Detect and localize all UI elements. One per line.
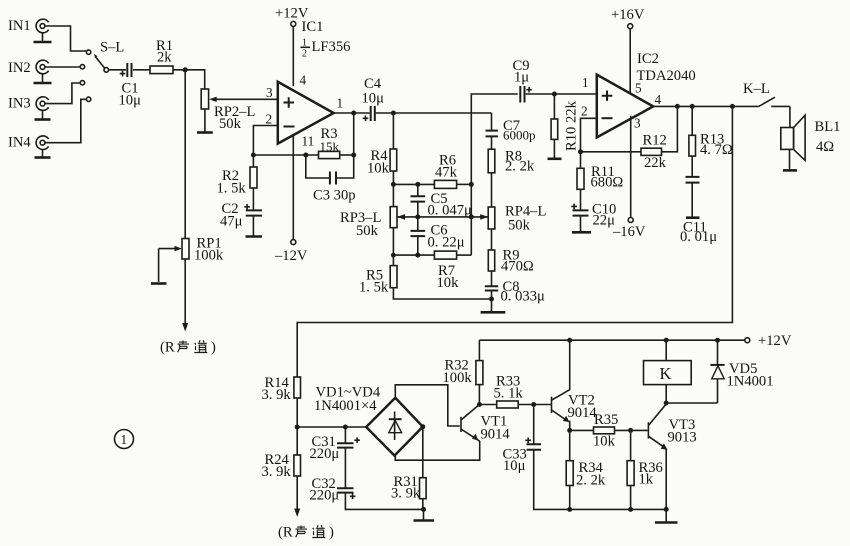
ground speaker bbox=[783, 169, 797, 172]
svg-text:1μ: 1μ bbox=[514, 70, 529, 86]
node R10 top bbox=[552, 92, 557, 97]
node wiper col B bbox=[415, 214, 420, 219]
resistor R6 47k bbox=[434, 153, 457, 189]
wire VT3 emitter to ground row bbox=[665, 449, 667, 510]
wire R4 to node X bbox=[392, 171, 394, 207]
svg-text:10μ: 10μ bbox=[503, 458, 526, 474]
svg-text:0. 22μ: 0. 22μ bbox=[428, 235, 465, 251]
wire +16V to pin 5 bbox=[629, 29, 631, 93]
capacitor C11 0.01u bbox=[680, 156, 717, 245]
node K rail bbox=[664, 338, 669, 343]
transistor VT2 9014 bbox=[552, 390, 598, 423]
capacitor C2 47u bbox=[220, 201, 262, 230]
svg-text:100k: 100k bbox=[194, 248, 224, 264]
svg-text:0. 033μ: 0. 033μ bbox=[501, 289, 545, 305]
wire IN1 to switch throw 1 bbox=[45, 26, 86, 51]
wire switch pole to C1 bbox=[109, 69, 126, 71]
wire pin2 to feedback node bbox=[253, 126, 277, 156]
svg-text:R12: R12 bbox=[643, 133, 667, 149]
resistor R11 680ohm bbox=[577, 152, 623, 191]
+12V rail bottom bbox=[479, 339, 744, 341]
ground tone network bbox=[481, 311, 506, 314]
svg-text:50k: 50k bbox=[508, 218, 531, 234]
node R34 ground row bbox=[567, 507, 572, 512]
svg-text:9014: 9014 bbox=[568, 405, 598, 421]
svg-text:K–L: K–L bbox=[743, 81, 770, 97]
wire R14 to node bbox=[296, 398, 298, 427]
ground RP2 bbox=[197, 131, 213, 134]
capacitor C9 1u bbox=[513, 58, 532, 103]
svg-text:3. 9k: 3. 9k bbox=[262, 387, 292, 403]
switch S-L bbox=[80, 40, 124, 102]
potentiometer RP3-L 50k bbox=[340, 207, 397, 239]
label (R声道) bottom bbox=[278, 525, 334, 541]
wire R33 to VT2 base bbox=[518, 404, 551, 406]
svg-text:IC2: IC2 bbox=[637, 51, 659, 67]
node R14 R24 bridge bbox=[295, 425, 300, 430]
svg-text:10k: 10k bbox=[437, 275, 460, 291]
svg-text:1k: 1k bbox=[639, 472, 654, 488]
wire bridge node row bbox=[297, 426, 366, 428]
svg-text:LF356: LF356 bbox=[312, 39, 351, 55]
node junction R1 output bbox=[183, 67, 188, 72]
svg-text:15k: 15k bbox=[320, 139, 340, 154]
svg-text:R10 22k: R10 22k bbox=[564, 100, 580, 151]
wire VT2 emitter down bbox=[569, 421, 571, 431]
op-amp IC2 triangle bbox=[597, 75, 653, 138]
input jack IN1 bbox=[8, 18, 52, 42]
svg-text:10k: 10k bbox=[367, 161, 390, 177]
svg-text:+12V: +12V bbox=[275, 6, 309, 22]
wire R5 bottom rail bbox=[393, 288, 491, 299]
node X col B bbox=[415, 182, 420, 187]
node C31 top bbox=[343, 425, 348, 430]
wire C2 to ground bbox=[252, 216, 254, 236]
node Y left bbox=[391, 253, 396, 258]
svg-text:100k: 100k bbox=[443, 370, 473, 386]
resistor R12 22k bbox=[641, 133, 667, 172]
op-amp minus input symbol bbox=[284, 126, 295, 128]
resistor R3 15k bbox=[319, 126, 340, 159]
resistor R4 10k bbox=[367, 113, 397, 177]
wire RP3 bottom to node Y bbox=[392, 228, 394, 266]
node VT2 collector rail bbox=[567, 338, 572, 343]
switch K-L bbox=[743, 81, 790, 106]
wire switch to speaker bbox=[789, 106, 791, 127]
svg-text:9014: 9014 bbox=[481, 427, 511, 443]
svg-text:K: K bbox=[660, 364, 672, 383]
node bridge right vertex bbox=[420, 424, 425, 429]
svg-text:2: 2 bbox=[302, 49, 307, 60]
wire IN4 to switch throw 4 bbox=[45, 99, 87, 142]
node R13 top bbox=[690, 104, 695, 109]
resistor R32 100k bbox=[443, 340, 483, 386]
svg-text:10μ: 10μ bbox=[362, 91, 385, 107]
svg-text:C3 30p: C3 30p bbox=[313, 188, 356, 204]
transistor VT3 9013 bbox=[648, 404, 696, 450]
svg-text:3. 9k: 3. 9k bbox=[262, 464, 292, 480]
capacitor C8 0.033u bbox=[485, 271, 545, 305]
svg-text:22μ: 22μ bbox=[593, 213, 616, 229]
capacitor C5 0.047u bbox=[411, 184, 472, 218]
wiper row RP3 to RP4 bbox=[397, 214, 488, 220]
wire IC1 output to C4 bbox=[334, 112, 370, 114]
resistor R8 2.2k bbox=[488, 136, 535, 174]
node VD5 rail bbox=[715, 338, 720, 343]
wire bridge top vertex to VT1 base bbox=[395, 385, 460, 426]
wire sense line speaker node to bottom left bbox=[297, 106, 732, 377]
wire IN3 to switch throw 3 bbox=[45, 83, 80, 104]
svg-text:10k: 10k bbox=[593, 434, 616, 450]
resistor R14 3.9k bbox=[262, 375, 301, 403]
svg-text:1: 1 bbox=[582, 75, 589, 90]
wire RP1 wiper to ground bbox=[158, 249, 160, 282]
potentiometer RP2-L 50k bbox=[201, 89, 278, 132]
svg-text:220μ: 220μ bbox=[310, 488, 340, 504]
node output junction bbox=[351, 111, 356, 116]
node VT1 collector R32 R33 bbox=[477, 402, 482, 407]
node speaker sense bbox=[730, 104, 735, 109]
svg-text:50k: 50k bbox=[356, 223, 379, 239]
svg-text:1: 1 bbox=[337, 96, 344, 111]
bridge rectifier VD1-VD4 bbox=[314, 385, 423, 456]
svg-text:–12V: –12V bbox=[274, 248, 308, 264]
node X left bbox=[391, 182, 396, 187]
wire RP2 bottom to ground bbox=[204, 109, 206, 132]
node ground C32 R31 bbox=[421, 507, 426, 512]
svg-text:–16V: –16V bbox=[612, 224, 646, 240]
wire R7 right to col C bbox=[457, 254, 472, 256]
wire C32 bottom to ground node bbox=[345, 493, 423, 510]
node C33 top bbox=[531, 402, 536, 407]
svg-text:680Ω: 680Ω bbox=[591, 175, 624, 191]
wire K top to rail bbox=[665, 340, 667, 360]
wire output column down bbox=[353, 113, 355, 155]
speaker BL1 4ohm bbox=[781, 115, 841, 160]
svg-text:4: 4 bbox=[655, 92, 662, 107]
node Y col B bbox=[415, 253, 420, 258]
svg-text:3: 3 bbox=[634, 116, 641, 131]
svg-text:1N4001×4: 1N4001×4 bbox=[314, 398, 377, 414]
wire R34 to ground row bbox=[569, 486, 571, 510]
ground R10 bbox=[548, 158, 562, 161]
svg-text:2k: 2k bbox=[157, 50, 172, 66]
wire feedback row left segment bbox=[253, 154, 318, 156]
svg-text:IN4: IN4 bbox=[8, 135, 31, 151]
wire R24 down to R channel arrow bbox=[296, 476, 298, 511]
transistor VT1 9014 bbox=[461, 405, 510, 443]
node R36 ground row bbox=[628, 507, 633, 512]
wire emitter node to R35 bbox=[570, 429, 594, 431]
resistor R2 1.5k bbox=[217, 155, 258, 197]
svg-text:1. 5k: 1. 5k bbox=[359, 280, 389, 296]
diode VD5 1N4001 bbox=[710, 340, 773, 403]
capacitor C1 10u bbox=[119, 63, 142, 109]
svg-text:47k: 47k bbox=[435, 165, 458, 181]
node C3 branch left bbox=[303, 153, 308, 158]
arrow to R channel (bottom) bbox=[294, 509, 300, 518]
col C vertical wire bbox=[471, 94, 517, 255]
svg-text:10μ: 10μ bbox=[119, 93, 142, 109]
svg-text:0. 047μ: 0. 047μ bbox=[428, 203, 472, 219]
svg-text:9013: 9013 bbox=[668, 430, 697, 446]
ground VT3 bbox=[665, 509, 667, 521]
wire IC2 pin2 to feedback node bbox=[581, 118, 597, 152]
resistor R33 5.1k bbox=[494, 374, 524, 409]
circled figure number 1 bbox=[115, 430, 134, 449]
IC2 plus input symbol bbox=[602, 91, 613, 101]
wire C4 to C7 corner (main row) bbox=[376, 112, 492, 114]
svg-text:TDA2040: TDA2040 bbox=[637, 68, 696, 84]
ground R31 bbox=[423, 509, 425, 519]
resistor R34 2.2k bbox=[566, 430, 606, 488]
node R4 top bbox=[391, 111, 396, 116]
node pin2 feedback junction bbox=[251, 153, 256, 158]
capacitor C3 30p loop bbox=[306, 155, 356, 204]
svg-text:50k: 50k bbox=[219, 116, 242, 132]
wire C11 to end bar bbox=[691, 183, 693, 217]
node bottom rail ground bbox=[489, 297, 494, 302]
node R6 right bbox=[469, 182, 474, 187]
capacitor C7 6000p bbox=[486, 113, 536, 143]
potentiometer RP1 100k bbox=[159, 236, 224, 264]
wire R2 to C2 bbox=[252, 188, 254, 210]
svg-text:2: 2 bbox=[581, 104, 588, 119]
wire feedback row to R12 bbox=[581, 151, 642, 153]
label (R声道) top bbox=[160, 340, 216, 356]
wire +12V to pin 4 bbox=[292, 26, 294, 86]
relay coil K bbox=[644, 361, 692, 385]
wire RP1 bottom to R-channel arrow bbox=[184, 259, 186, 325]
wire R11 to C10 bbox=[580, 189, 582, 210]
input jack IN4 bbox=[8, 135, 51, 158]
svg-text:5. 1k: 5. 1k bbox=[494, 386, 524, 402]
svg-text:): ) bbox=[211, 340, 216, 356]
wire speaker to ground bbox=[789, 149, 791, 169]
op-amp plus input symbol bbox=[284, 97, 295, 107]
ground C2 bbox=[246, 235, 263, 238]
svg-text:IN1: IN1 bbox=[8, 18, 31, 34]
svg-text:2: 2 bbox=[266, 112, 273, 127]
svg-text:+12V: +12V bbox=[758, 333, 792, 349]
wire R12 right up to output bbox=[662, 106, 678, 151]
svg-text:470Ω: 470Ω bbox=[501, 259, 534, 275]
svg-text:S–L: S–L bbox=[100, 40, 124, 56]
capacitor C32 220u bbox=[310, 448, 356, 504]
wire node to R33 bbox=[479, 404, 496, 406]
node feedback output bbox=[675, 104, 680, 109]
resistor R24 3.9k bbox=[262, 427, 301, 480]
node VT3 emitter ground row bbox=[664, 507, 669, 512]
arrow to R channel (top) bbox=[182, 323, 188, 332]
svg-text:1N4001: 1N4001 bbox=[727, 374, 774, 390]
wire R35 to VT3 base bbox=[615, 429, 648, 431]
svg-text:4. 7Ω: 4. 7Ω bbox=[700, 142, 733, 158]
svg-text:1: 1 bbox=[121, 432, 128, 447]
+16V supply terminal IC2 bbox=[611, 7, 645, 29]
resistor R31 3.9k bbox=[391, 427, 426, 502]
capacitor C33 10u bbox=[503, 405, 542, 475]
wire pin 3 to -16V bbox=[630, 116, 632, 218]
svg-text:220μ: 220μ bbox=[310, 446, 340, 462]
node VT3 collector K VD5 bbox=[664, 401, 669, 406]
svg-text:(R: (R bbox=[278, 525, 293, 541]
node wiper col C bbox=[469, 214, 474, 219]
+12V supply terminal IC1 bbox=[275, 6, 309, 27]
svg-text:0. 01μ: 0. 01μ bbox=[680, 229, 717, 245]
potentiometer RP4-L 50k bbox=[488, 204, 546, 234]
label 1/2 LF356 bbox=[301, 38, 351, 60]
wire R36 to ground row bbox=[630, 486, 632, 510]
resistor R10 22k bbox=[551, 94, 579, 158]
-12V supply terminal IC1 bbox=[274, 240, 308, 264]
svg-text:3. 9k: 3. 9k bbox=[391, 486, 421, 502]
wire C1 to R1 bbox=[133, 69, 150, 71]
svg-text:4Ω: 4Ω bbox=[816, 139, 834, 155]
wire IC2 output row bbox=[653, 105, 759, 107]
ground C10 bbox=[572, 231, 591, 234]
capacitor C31 220u bbox=[310, 427, 360, 462]
svg-text:11: 11 bbox=[302, 134, 315, 149]
svg-text:(R: (R bbox=[160, 340, 175, 356]
resistor R35 10k bbox=[593, 412, 618, 450]
svg-text:2. 2k: 2. 2k bbox=[576, 473, 606, 489]
svg-text:IN3: IN3 bbox=[8, 96, 31, 112]
svg-text:BL1: BL1 bbox=[815, 119, 841, 135]
wire node X row bbox=[393, 183, 434, 185]
wire R32 to node bbox=[478, 385, 480, 405]
resistor R7 10k bbox=[434, 251, 459, 291]
input jack IN2 bbox=[8, 60, 52, 83]
wire R31 to ground node bbox=[422, 499, 424, 510]
wire VT2 collector to rail bbox=[569, 340, 571, 390]
op-amp IC1 triangle bbox=[278, 82, 334, 144]
resistor R9 470ohm bbox=[488, 229, 534, 275]
node VT2 emitter R35 R34 bbox=[567, 428, 572, 433]
capacitor C4 10u bbox=[362, 76, 385, 121]
svg-text:): ) bbox=[329, 525, 334, 541]
wire node down to RP1 bbox=[184, 70, 186, 239]
svg-text:1. 5k: 1. 5k bbox=[217, 181, 247, 197]
svg-text:47μ: 47μ bbox=[220, 214, 243, 230]
wire R8 to RP4 bbox=[491, 173, 493, 207]
wire bridge bottom vertex to emitter row bbox=[395, 441, 479, 460]
IC2 minus input symbol bbox=[602, 117, 613, 119]
svg-text:2. 2k: 2. 2k bbox=[505, 159, 535, 175]
wire K node row to VD5 bbox=[666, 402, 717, 404]
wire R6 right to col C bbox=[457, 183, 472, 185]
svg-text:4: 4 bbox=[300, 73, 307, 88]
wire IN2 to switch throw 2 bbox=[45, 66, 80, 68]
svg-text:3: 3 bbox=[266, 85, 273, 100]
wire C8 to ground node bbox=[491, 291, 493, 312]
resistor R13 4.7ohm bbox=[689, 106, 733, 158]
ground bar C11 bbox=[686, 216, 700, 219]
resistor R5 1.5k bbox=[359, 266, 397, 296]
capacitor C10 22u bbox=[571, 202, 616, 229]
wire R1 to RP2 top bbox=[173, 70, 205, 89]
wire C33 bottom to ground row bbox=[534, 450, 667, 510]
input jack IN3 bbox=[8, 96, 51, 120]
svg-text:IN2: IN2 bbox=[8, 60, 31, 76]
wire C10 to ground bbox=[580, 216, 582, 231]
ground RP1 wiper bbox=[151, 282, 167, 285]
resistor R36 1k bbox=[627, 430, 663, 487]
+12V terminal bottom bbox=[745, 333, 792, 349]
wire C9 to IC2 pin1 bbox=[526, 93, 597, 95]
capacitor C6 0.22u bbox=[411, 217, 465, 255]
wire R3 right to output column bbox=[340, 154, 354, 156]
wire K bottom to node bbox=[665, 385, 667, 403]
wire pin 11 to -12V bbox=[292, 135, 294, 240]
-16V supply terminal IC2 bbox=[612, 218, 646, 241]
node feedback right bbox=[351, 153, 356, 158]
node R36 top bbox=[628, 428, 633, 433]
wire node Y row bbox=[393, 254, 434, 256]
svg-text:R35: R35 bbox=[594, 412, 618, 428]
svg-text:6000p: 6000p bbox=[503, 128, 536, 143]
svg-text:22k: 22k bbox=[644, 155, 667, 171]
resistor R1 2k bbox=[150, 38, 173, 74]
svg-text:+16V: +16V bbox=[611, 7, 645, 23]
node IC2 feedback junction bbox=[578, 149, 583, 154]
